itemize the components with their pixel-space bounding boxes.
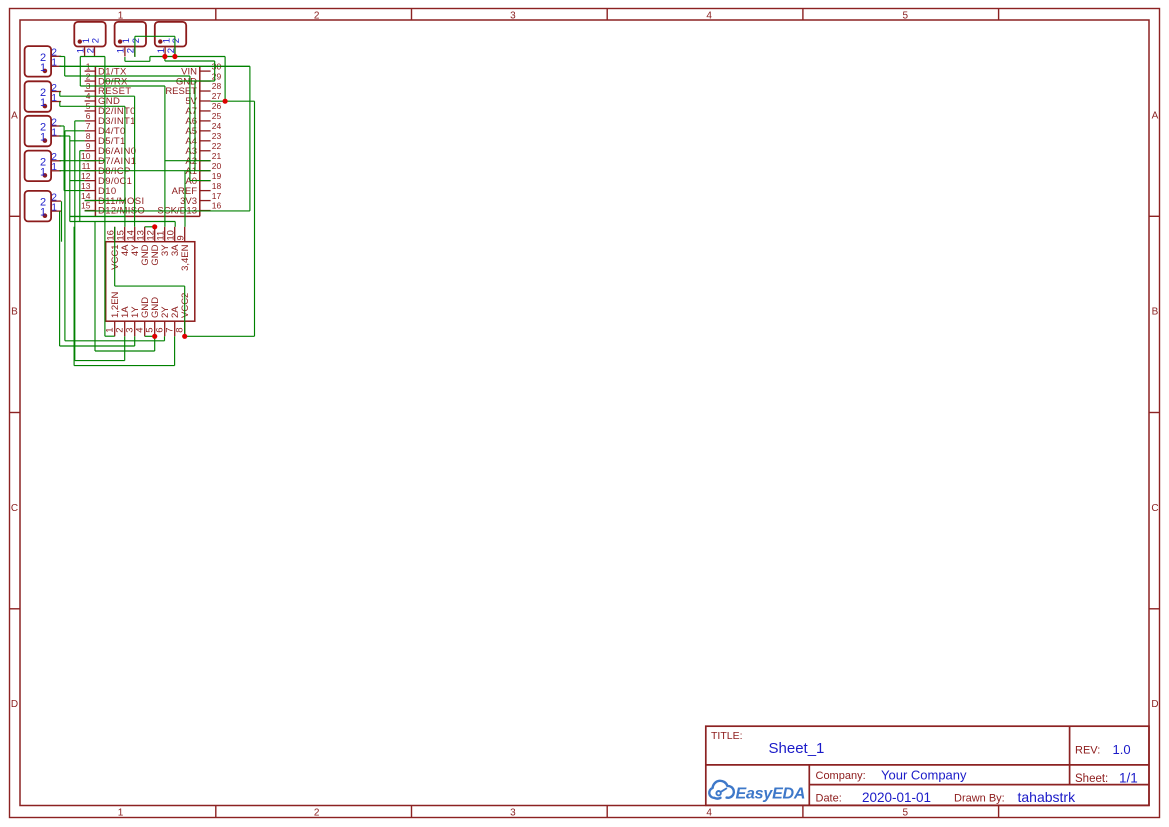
svg-text:1: 1 (51, 58, 57, 69)
svg-text:23: 23 (212, 131, 222, 141)
U1 pin 27 5V (185, 91, 221, 107)
U1 pin 10 D7/AIN1 (81, 151, 136, 167)
svg-text:12: 12 (81, 171, 91, 181)
U1 pin 5 D2/INT0 (85, 101, 136, 117)
svg-text:18: 18 (212, 181, 222, 191)
svg-text:3: 3 (510, 808, 516, 819)
connector P8 (155, 22, 186, 57)
svg-text:1: 1 (51, 162, 57, 173)
svg-text:1.0: 1.0 (1113, 742, 1131, 757)
wire net N$6 L1.1 D12/MISO SCK/D13 cover (60, 66, 250, 211)
U1 pin 16 SCK/D13 (157, 201, 221, 217)
connector P3 (25, 116, 62, 147)
svg-text:1: 1 (40, 207, 46, 219)
svg-text:14: 14 (81, 191, 91, 201)
wire net N$15 L5.1 to 1Y (60, 211, 135, 346)
svg-text:21: 21 (212, 151, 222, 161)
svg-text:27: 27 (212, 91, 222, 101)
svg-text:3: 3 (510, 11, 516, 22)
wire net N$10 branch b to 4A riser (70, 215, 125, 217)
svg-text:5: 5 (903, 808, 909, 819)
U2 pin 1 1,2EN (105, 291, 122, 336)
junction J1 (162, 54, 167, 59)
U2 pin 16 VCC1 (106, 227, 122, 270)
svg-text:B: B (1152, 307, 1159, 318)
svg-text:B: B (11, 307, 18, 318)
svg-text:1: 1 (40, 166, 46, 178)
svg-text:17: 17 (212, 191, 222, 201)
svg-text:2: 2 (314, 11, 320, 22)
U1 pin 14 D11/MOSI (81, 191, 144, 207)
junction J2 (172, 54, 177, 59)
svg-text:Drawn By:: Drawn By: (954, 793, 1005, 805)
svg-text:2020-01-01: 2020-01-01 (862, 790, 931, 805)
U1 pin 9 D6/AIN0 (85, 141, 137, 157)
wire net N$14 L5.2 stub riser (61, 201, 63, 241)
svg-text:tahabstrk: tahabstrk (1018, 789, 1077, 805)
svg-text:4: 4 (706, 11, 712, 22)
connector P6 (74, 22, 105, 57)
U2 pin 12 GND (146, 227, 162, 266)
svg-text:26: 26 (212, 101, 222, 111)
U1 pin 24 A5 (185, 121, 221, 137)
U2 pin 3 1Y (125, 306, 142, 337)
wire net N$17 D3 to 1A (75, 121, 125, 361)
svg-text:19: 19 (212, 171, 222, 181)
svg-text:10: 10 (81, 151, 91, 161)
wire net N$16 D4 to 2Y (65, 131, 165, 341)
U1 pin 3 RESET (85, 81, 132, 97)
wire net N$3 top tie to 5V (150, 57, 255, 102)
U1 pin 6 D3/INT1 (85, 111, 136, 127)
wire net N$3 P5.1 riser (125, 57, 150, 62)
wire net N$10 branch c to 3A (70, 222, 175, 227)
wire net N$10 L3.1 D5 D9 bus (60, 136, 85, 222)
svg-text:1: 1 (118, 808, 124, 819)
svg-text:Date:: Date: (816, 793, 842, 805)
svg-text:8: 8 (175, 328, 186, 333)
U1 pin 15 D12/MISO (81, 201, 145, 217)
wire net N$18 to 2A (74, 227, 175, 366)
U1 pin 25 A6 (185, 111, 221, 127)
title block values (769, 740, 1138, 805)
U1 pin 22 A3 (185, 141, 221, 157)
wire net N$2 branch to GND/pin29 (105, 61, 215, 171)
wire net N$4 P5.2 to P6.2 (135, 36, 175, 57)
wire net N$2 branch to A2/pin21 and 3Y (80, 57, 210, 227)
svg-text:1: 1 (40, 62, 46, 74)
U1 pin 1 D1/TX (85, 61, 127, 77)
U1 pin 17 3V3 (180, 191, 221, 207)
U2 pin 9 3,4EN (176, 227, 192, 271)
U1 pin 29 GND (176, 71, 222, 87)
U1 pin 2 D0/RX (85, 71, 128, 87)
svg-text:C: C (1151, 503, 1158, 514)
U2 pin 8 VCC2 (175, 293, 192, 337)
svg-text:TITLE:: TITLE: (711, 730, 743, 742)
svg-text:1: 1 (118, 11, 124, 22)
wire net N$1 L1.2 to A0/pin19 (60, 57, 211, 181)
svg-text:7: 7 (86, 121, 91, 131)
svg-text:1: 1 (40, 97, 46, 109)
U2 pin 2 1A (115, 306, 132, 337)
wire net N$19 VCC1 to VCC2 inner (115, 227, 185, 336)
junction J5 (152, 334, 157, 339)
svg-text:Sheet:: Sheet: (1075, 773, 1108, 785)
svg-text:C: C (11, 503, 18, 514)
U1 pin 7 D4/T0 (85, 121, 126, 137)
wire net N$5 dot1 drop (164, 57, 166, 62)
U1 pin 4 GND (85, 91, 121, 107)
connector P5 (25, 191, 62, 222)
svg-text:13: 13 (81, 181, 91, 191)
svg-text:4: 4 (706, 808, 712, 819)
svg-text:A: A (11, 110, 18, 121)
svg-text:1: 1 (51, 127, 57, 138)
U1 pin 12 D9/0C1 (81, 171, 132, 187)
U2 pin 10 3A (166, 227, 182, 256)
U2 pin 15 4A (116, 227, 132, 256)
svg-text:24: 24 (212, 121, 222, 131)
wire net N$3 5V to VCC2 (185, 101, 255, 336)
svg-text:2: 2 (131, 38, 142, 43)
svg-text:VCC2: VCC2 (180, 293, 191, 318)
wire net N$7 L2.2 to 4Y (60, 92, 135, 227)
svg-text:28: 28 (212, 81, 222, 91)
wire net N$12 L4.1 D8/ICP A1 to 3,4EN (60, 171, 211, 227)
U1 pin 13 D10 (81, 181, 116, 197)
U1 pin 26 A7 (185, 101, 221, 117)
svg-text:Sheet_1: Sheet_1 (769, 740, 825, 757)
svg-text:2: 2 (91, 38, 102, 43)
title block text (711, 730, 1108, 805)
U1 pin 20 A1 (185, 161, 221, 177)
wire net N$13 L4.2 D7/AIN1 riser (60, 160, 105, 162)
U1 pin 30 VIN (181, 61, 221, 77)
svg-text:2: 2 (314, 808, 320, 819)
wire net N$8 L2.1 D11/MOSI to 4A (60, 101, 125, 227)
svg-text:1/1: 1/1 (1119, 771, 1138, 786)
svg-text:D: D (11, 699, 18, 710)
U1 pin 19 A0 (185, 171, 221, 187)
svg-text:Company:: Company: (816, 770, 866, 782)
U1 pin 28 RESET (165, 81, 221, 97)
svg-text:11: 11 (82, 161, 91, 171)
svg-text:15: 15 (81, 201, 91, 211)
junction J4 (152, 224, 157, 229)
wire net N$11 D6 drop (80, 151, 85, 222)
svg-text:REV:: REV: (1075, 745, 1100, 757)
svg-text:22: 22 (212, 141, 222, 151)
svg-text:1: 1 (51, 93, 57, 104)
svg-text:2: 2 (171, 38, 182, 43)
svg-text:D: D (1151, 699, 1158, 710)
U2 pin 5 GND (145, 297, 162, 337)
U1 pin 23 A4 (185, 131, 221, 147)
svg-text:9: 9 (176, 235, 187, 240)
svg-text:25: 25 (212, 111, 222, 121)
wire net N$2 branch to 1,2EN (105, 57, 115, 337)
svg-text:9: 9 (86, 141, 91, 151)
wire net N$9 L3.2 to D10 (60, 126, 85, 191)
svg-text:8: 8 (86, 131, 91, 141)
U1 pin 8 D5/T1 (85, 131, 126, 147)
svg-text:5: 5 (903, 11, 909, 22)
svg-text:1: 1 (51, 203, 57, 214)
svg-text:29: 29 (212, 71, 222, 81)
wire net N$10 branch GND pins 12,13 tie (145, 226, 155, 228)
U2 pin 13 GND (136, 227, 152, 266)
U1 pin 11 D8/ICP (82, 161, 131, 177)
svg-text:2: 2 (85, 48, 96, 53)
svg-text:1: 1 (40, 132, 46, 144)
junction J3 (223, 99, 228, 104)
connector P7 (115, 22, 146, 57)
wire net N$10 branch to GND pins 4,5 (95, 222, 155, 352)
svg-text:16: 16 (212, 201, 222, 211)
U1 pin 18 AREF (172, 181, 222, 197)
MCU U1 Arduino body (95, 66, 199, 216)
wire net N$2 P1 pins tie (80, 56, 105, 58)
svg-text:A: A (1152, 110, 1159, 121)
U2 pin 6 2Y (155, 306, 172, 337)
connector P4 (25, 151, 62, 182)
driver U2 L293D body (106, 242, 195, 322)
title block (706, 726, 1149, 805)
svg-text:EasyEDA: EasyEDA (736, 786, 806, 803)
connector P2 (25, 81, 62, 112)
U2 pin 14 4Y (126, 227, 142, 256)
svg-text:3,4EN: 3,4EN (180, 244, 191, 271)
junction J6 (182, 334, 187, 339)
svg-text:20: 20 (212, 161, 222, 171)
svg-text:6: 6 (86, 111, 91, 121)
U2 pin 4 GND (135, 297, 152, 337)
connector P1 (25, 46, 62, 77)
U2 pin 11 3Y (156, 227, 172, 256)
EasyEDA logo (709, 781, 805, 803)
svg-text:Your Company: Your Company (881, 768, 967, 783)
U1 pin 21 A2 (185, 151, 221, 167)
U2 pin 7 2A (165, 306, 182, 337)
